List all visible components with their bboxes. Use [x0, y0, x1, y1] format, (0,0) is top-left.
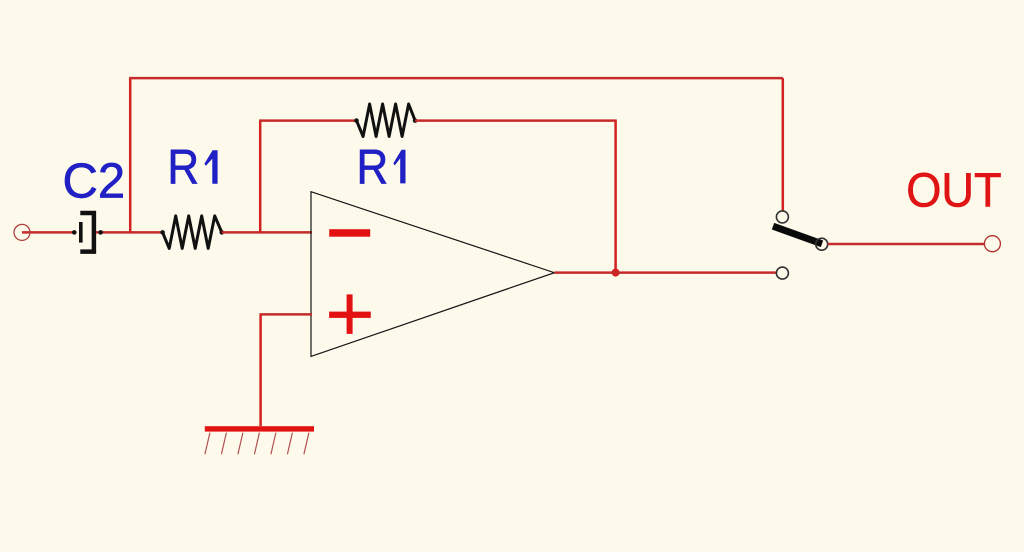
node junction dot output	[612, 269, 620, 277]
wire op-amp output	[554, 271, 776, 274]
wire top rail	[129, 77, 783, 80]
op-amp plus symbol	[329, 294, 371, 334]
input terminal	[14, 224, 30, 240]
label R1 input resistor	[167, 140, 217, 195]
wire feedback top left	[259, 119, 356, 122]
wire R1 to op-amp minus input	[222, 231, 312, 234]
op-amp minus symbol	[329, 229, 370, 237]
output terminal	[984, 236, 1000, 252]
ground symbol bar	[205, 426, 314, 431]
wire feedback vertical right	[614, 121, 617, 273]
wire feedback top right	[415, 119, 617, 122]
wire switch upper drop	[782, 78, 785, 211]
resistor R1 terminal dots	[160, 230, 165, 235]
node junction dot left of C2	[72, 230, 77, 235]
resistor R1 (series input)	[163, 216, 222, 249]
resistor R1 (feedback)	[357, 104, 416, 137]
switch lower contact	[776, 267, 788, 279]
switch common contact	[816, 238, 828, 250]
op-amp U1 triangle	[311, 192, 554, 357]
switch upper contact	[776, 211, 788, 223]
resistor feedback terminal dots	[354, 118, 359, 123]
capacitor C2 left plate	[79, 222, 83, 243]
switch lever	[773, 226, 822, 244]
svg-text:R: R	[167, 140, 199, 195]
label R1 feedback resistor	[357, 139, 406, 194]
wire C2 to R1	[96, 231, 163, 234]
wire input stub	[22, 231, 76, 234]
wire plus input horizontal	[260, 313, 313, 316]
wire feedback vertical left	[259, 121, 262, 234]
ground hatch lines	[205, 433, 309, 455]
svg-text:OUT: OUT	[906, 163, 1001, 217]
svg-text:C2: C2	[63, 155, 126, 209]
wire switch to OUT terminal	[828, 243, 985, 246]
svg-text:R: R	[357, 139, 389, 194]
node junction dot right of C2	[98, 230, 103, 235]
capacitor C2 right bracket plate	[80, 213, 94, 252]
wire ground drop	[259, 314, 262, 426]
wire vertical to top rail	[129, 78, 132, 233]
